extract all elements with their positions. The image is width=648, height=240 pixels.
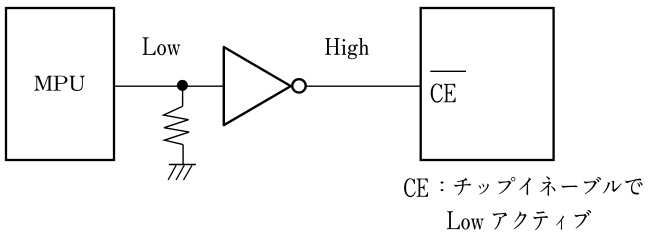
CE overline (430, 70, 466, 72)
ground (168, 165, 196, 180)
caption line 1 colon (440, 182, 443, 192)
label MPU (34, 76, 85, 91)
node junction dot (177, 80, 188, 91)
caption line 1 text チップイネーブルで (454, 176, 643, 195)
pin label CE (431, 83, 456, 102)
wire resistor to ground (182, 145, 184, 165)
wire from MPU to inverter input (114, 85, 224, 87)
label Low (142, 37, 180, 55)
inverter U1 output bubble (292, 79, 305, 92)
chip box (CE) (421, 8, 554, 160)
wire junction to resistor (182, 86, 184, 106)
inverter U1 triangle (224, 47, 291, 125)
caption line 1 text CE (404, 178, 428, 197)
resistor R (pull-down) (164, 106, 190, 144)
wire inverter output to CE box (306, 85, 421, 87)
MPU box (6, 8, 114, 160)
caption line 2: Low アクティブ (447, 210, 591, 230)
label High (325, 38, 369, 59)
